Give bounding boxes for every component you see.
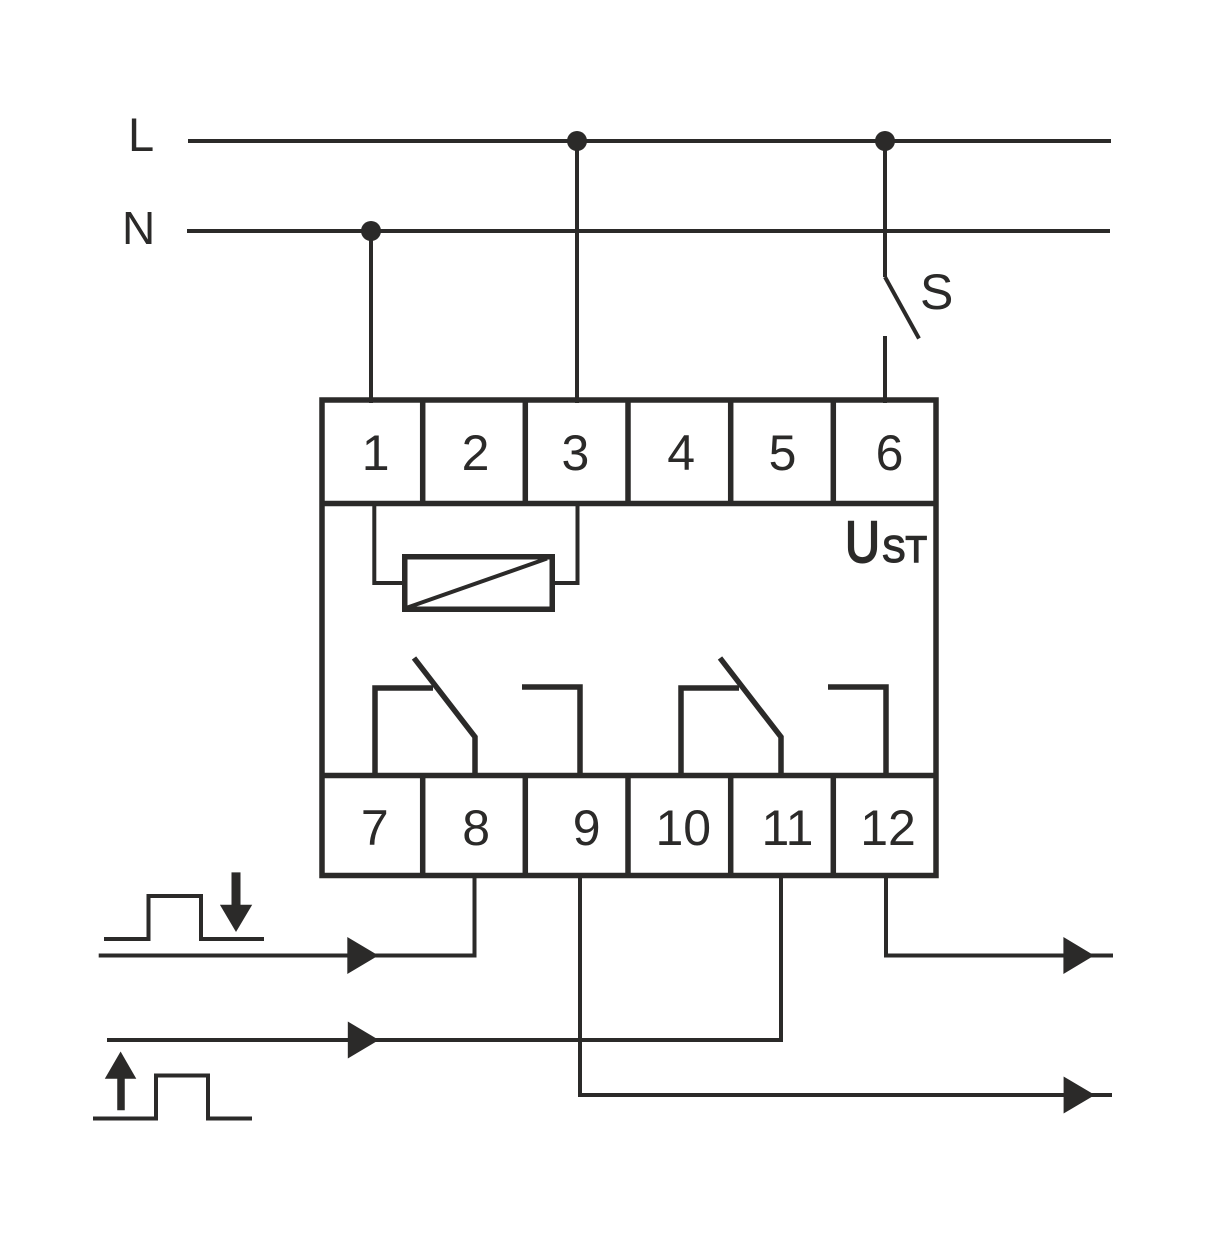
contact K1a NC side from terminal 7: [375, 688, 433, 777]
node L junction to switch S: [875, 131, 895, 151]
svg-text:2: 2: [462, 425, 490, 481]
wire input 1 to terminal 8: [99, 875, 475, 956]
svg-text:1: 1: [362, 425, 390, 481]
terminal strip top: divider 1|2: [420, 400, 426, 504]
arrow input 1: [347, 937, 378, 974]
arrow output 2: [1064, 1077, 1095, 1114]
wire L to switch S: [883, 141, 887, 277]
wire terminal 9 to output 2: [580, 875, 1112, 1095]
svg-text:4: 4: [667, 425, 695, 481]
wire terminal 1 to coil: [374, 504, 404, 584]
coil K1 diagonal: [408, 559, 548, 608]
contact K1b moving arm to terminal 11: [720, 658, 781, 777]
wire L to terminal 3: [575, 141, 579, 403]
arrow output 1: [1063, 937, 1094, 974]
terminal strip top: divider 3|4: [625, 400, 631, 504]
wire N to terminal 1: [369, 231, 373, 403]
svg-text:5: 5: [769, 425, 797, 481]
coil K1 body: [405, 557, 553, 610]
switch S arm: [885, 277, 919, 339]
falling edge arrow shaft: [232, 872, 241, 906]
svg-text:ST: ST: [882, 529, 927, 570]
svg-text:L: L: [128, 108, 154, 161]
svg-text:N: N: [122, 202, 155, 254]
svg-text:9: 9: [573, 800, 601, 856]
wire terminal 12 to output 1: [886, 875, 1113, 956]
arrow input 2: [348, 1022, 379, 1059]
terminal strip top: divider 4|5: [728, 400, 734, 504]
falling edge arrow head: [220, 905, 252, 932]
waveform pulse (falling edge trigger): [104, 896, 264, 939]
waveform pulse (rising edge trigger): [93, 1076, 252, 1119]
svg-text:U: U: [845, 510, 880, 575]
svg-text:7: 7: [361, 800, 389, 856]
terminal strip bottom: divider 7|8: [420, 775, 426, 876]
terminal strip bottom: top edge: [322, 773, 936, 779]
svg-text:11: 11: [762, 800, 814, 856]
rising edge arrow shaft: [117, 1077, 125, 1110]
svg-text:8: 8: [462, 800, 490, 856]
wire terminal 3 to coil: [551, 504, 578, 584]
terminal strip bottom: divider 11|12: [831, 775, 837, 876]
wire N line: [187, 229, 1110, 233]
terminal strip bottom: divider 8|9: [523, 775, 529, 876]
svg-text:12: 12: [860, 800, 916, 856]
svg-text:10: 10: [655, 800, 711, 856]
terminal strip bottom: divider 10|11: [728, 775, 734, 876]
contact K1b NO side from terminal 12: [828, 687, 886, 777]
wire L line: [188, 139, 1111, 143]
contact K1b NC side from terminal 10: [681, 688, 739, 777]
terminal strip bottom: divider 9|10: [625, 775, 631, 876]
rising edge arrow head: [105, 1052, 137, 1079]
contact K1a NO side from terminal 9: [522, 687, 580, 777]
svg-text:6: 6: [876, 425, 904, 481]
svg-text:S: S: [920, 264, 953, 320]
wire switch S to terminal 6: [883, 336, 887, 403]
node L junction to terminal 3: [567, 131, 587, 151]
svg-text:3: 3: [561, 425, 589, 481]
node N junction to terminal 1: [361, 221, 381, 241]
terminal strip top: bottom edge: [322, 501, 936, 507]
wire input 2 to terminal 11: [107, 875, 781, 1040]
device outline box: [322, 400, 936, 876]
contact K1a moving arm to terminal 8: [414, 658, 475, 777]
terminal strip top: divider 2|3: [523, 400, 529, 504]
terminal strip top: divider 5|6: [831, 400, 837, 504]
